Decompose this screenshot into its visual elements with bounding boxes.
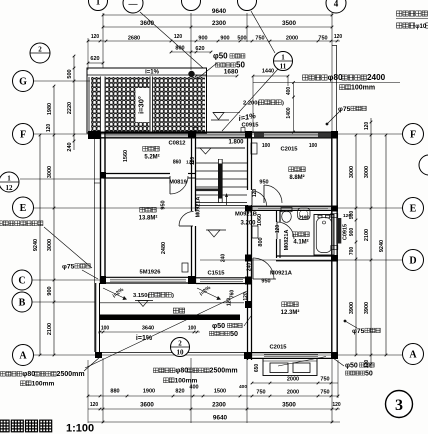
svg-text:φ80: φ80 — [175, 368, 188, 375]
column blob C-2 — [188, 276, 196, 284]
svg-text:i=1%: i=1% — [136, 335, 153, 342]
svg-text:C0915: C0915 — [241, 123, 259, 129]
svg-text:φ80: φ80 — [328, 73, 343, 82]
balcony ac unit 2 — [293, 363, 310, 373]
column blob F-4 — [331, 131, 338, 139]
svg-text:400: 400 — [286, 87, 292, 96]
axis line 4 vertical — [331, 12, 333, 133]
svg-text:1500: 1500 — [214, 389, 226, 395]
svg-text:750: 750 — [320, 390, 329, 396]
wall E right part — [252, 205, 331, 207]
svg-text:120: 120 — [332, 402, 341, 408]
axis bubble E right — [403, 198, 424, 219]
axis bubble E left — [13, 197, 34, 218]
svg-text:): ) — [282, 101, 284, 107]
shaft room8.8 — [251, 143, 257, 154]
svg-text:M0921A: M0921A — [270, 271, 293, 277]
svg-text:2: 2 — [38, 46, 42, 54]
note ac top right — [303, 75, 308, 80]
svg-text:φ80: φ80 — [22, 371, 35, 378]
svg-text:120: 120 — [46, 124, 52, 133]
terrace label — [173, 308, 178, 313]
bottom dim row 9640 — [88, 421, 340, 423]
svg-text:C0812: C0812 — [168, 141, 185, 147]
top dim row 9640 — [103, 14, 332, 16]
svg-text:φ75: φ75 — [62, 264, 75, 271]
svg-text:13.8M²: 13.8M² — [139, 215, 158, 222]
axis line B — [32, 301, 95, 303]
column blob storage-left — [100, 172, 106, 179]
svg-text:12.3M²: 12.3M² — [281, 309, 300, 316]
dim 1680 — [196, 75, 237, 77]
svg-text:1.800: 1.800 — [228, 140, 244, 146]
svg-text:B: B — [19, 298, 26, 309]
svg-text:2100: 2100 — [47, 323, 53, 335]
wall F solid seg1 — [254, 133, 264, 138]
svg-text:8.8M²: 8.8M² — [289, 174, 304, 181]
svg-text:400: 400 — [189, 385, 198, 391]
column blob E-4 — [331, 206, 338, 212]
svg-text:C: C — [18, 276, 25, 287]
svg-text:5.2M²: 5.2M² — [144, 154, 159, 161]
column blob D-4 — [331, 255, 338, 262]
svg-text:3000: 3000 — [47, 166, 53, 178]
svg-text:120: 120 — [364, 122, 370, 131]
stair landing line — [196, 147, 245, 149]
axis line C — [32, 279, 100, 281]
note wall detail left — [0, 221, 2, 226]
axis bubble F left — [13, 124, 34, 145]
svg-text:100: 100 — [309, 143, 318, 149]
terrace eave edge at A — [95, 352, 250, 354]
door M0821A bath — [276, 222, 278, 239]
window sill mark C0915 right — [241, 128, 245, 133]
axis line 2 vertical — [190, 13, 192, 70]
svg-text:9640: 9640 — [213, 415, 228, 422]
svg-text:1: 1 — [7, 175, 11, 183]
svg-text:2220: 2220 — [67, 102, 73, 114]
svg-text:240: 240 — [67, 142, 73, 151]
svg-text:10: 10 — [176, 348, 184, 356]
stair bottom edge — [196, 205, 247, 207]
column blob F-1 — [88, 131, 100, 139]
axis bubble B left — [12, 292, 32, 312]
svg-text:1900: 1900 — [143, 389, 155, 395]
svg-text:900: 900 — [349, 228, 355, 237]
stair treads — [196, 162, 247, 164]
axis bubble 2 top — [182, 0, 201, 11]
axis line F — [34, 133, 402, 135]
axis line 1 vertical — [102, 13, 104, 68]
ext line 1440 — [252, 76, 254, 132]
svg-text:500: 500 — [237, 36, 246, 42]
svg-text:50: 50 — [230, 329, 238, 338]
svg-text:2000: 2000 — [286, 36, 298, 42]
svg-text:120: 120 — [174, 34, 183, 40]
svg-text:F: F — [410, 130, 416, 141]
svg-text:—: — — [128, 0, 139, 8]
svg-text:φ50: φ50 — [345, 363, 358, 370]
svg-text:2680: 2680 — [128, 36, 140, 42]
svg-text:880: 880 — [110, 389, 119, 395]
door bedroom 12.3 — [252, 258, 254, 279]
top dim row small — [88, 40, 340, 42]
svg-text:φ10: φ10 — [415, 24, 427, 30]
label bathroom — [293, 232, 298, 237]
bottom dim row 3600/2300/3500 — [88, 408, 340, 410]
terrace level 3.150 — [135, 300, 153, 302]
window C2015F glazing — [264, 133, 318, 135]
column blob F-2 — [188, 131, 196, 139]
column blob A-4 — [331, 352, 338, 359]
window C0915F glazing — [196, 133, 245, 135]
column blob D-3 — [245, 255, 252, 262]
svg-text:100mm: 100mm — [351, 85, 375, 92]
svg-text:E: E — [20, 203, 27, 214]
svg-text:F: F — [20, 130, 26, 141]
svg-text:φ75: φ75 — [338, 106, 351, 113]
stair stringer — [218, 159, 223, 203]
axis line 3 vertical — [246, 13, 248, 42]
ledge slope arrow right — [197, 288, 220, 299]
ledge edge line — [100, 302, 244, 304]
svg-text:100: 100 — [262, 143, 271, 149]
svg-text:120: 120 — [275, 225, 281, 234]
svg-text:D: D — [409, 256, 416, 267]
svg-text:M0921B: M0921B — [235, 212, 257, 218]
sink — [298, 208, 311, 220]
detail circle 2/10 — [171, 338, 190, 357]
svg-text:900: 900 — [198, 36, 207, 42]
label master bedroom — [140, 207, 145, 212]
svg-text:3000: 3000 — [47, 239, 53, 251]
svg-text:3900: 3900 — [364, 302, 370, 314]
leader circle2 to roof — [140, 12, 203, 68]
svg-text:1060: 1060 — [257, 214, 263, 226]
label bedroom 12.3 — [282, 302, 287, 307]
wall axis1 left — [100, 133, 102, 283]
axis line A — [34, 354, 402, 356]
svg-text:100: 100 — [188, 326, 197, 332]
top dim row 3600/2300/3500 — [103, 26, 332, 28]
leader circle3 to detail — [251, 11, 275, 53]
svg-text:3600: 3600 — [140, 402, 154, 409]
svg-text:A: A — [19, 351, 27, 362]
bottom ext line left — [87, 360, 89, 423]
svg-text:1: 1 — [96, 0, 101, 6]
svg-text:E: E — [410, 204, 417, 215]
svg-text:C0915: C0915 — [343, 224, 349, 240]
wall A right part — [250, 352, 338, 354]
roof eave band line — [87, 74, 207, 76]
svg-text:100: 100 — [101, 326, 110, 332]
level 2.200 — [211, 119, 229, 121]
svg-text:2.200(: 2.200( — [243, 101, 260, 107]
svg-text:3900: 3900 — [349, 302, 355, 314]
svg-text:1680: 1680 — [224, 69, 239, 76]
wall F top line — [88, 131, 338, 133]
svg-text:1980: 1980 — [47, 103, 53, 115]
roof left edge — [88, 77, 90, 132]
left dim col inner 500/2220/240 — [73, 56, 75, 150]
svg-text:φ75: φ75 — [352, 328, 365, 335]
svg-text:120: 120 — [243, 292, 249, 301]
terrace dim 3640 — [98, 331, 200, 333]
svg-text:2300: 2300 — [212, 20, 227, 27]
wall F bottom line — [88, 137, 338, 139]
wall bath left — [276, 210, 278, 222]
bathtub — [318, 215, 322, 218]
svg-text:i=30°: i=30° — [137, 96, 146, 114]
title — [0, 420, 9, 432]
svg-text:500: 500 — [67, 69, 73, 78]
svg-text:11: 11 — [280, 62, 287, 70]
svg-text:5M1926: 5M1926 — [140, 270, 162, 276]
svg-text:120: 120 — [343, 213, 351, 219]
window sill mark C0915 left — [194, 128, 198, 133]
column blob F-3 — [245, 131, 252, 139]
svg-text:800: 800 — [258, 237, 264, 246]
axis bubble extra top — [123, 0, 143, 13]
toilet — [281, 208, 292, 212]
svg-text:3: 3 — [395, 397, 403, 414]
terrace parapet band — [100, 315, 240, 321]
door M0819 — [169, 176, 171, 194]
ledge slope arrow left — [103, 288, 126, 299]
bottom dim row small — [88, 395, 338, 397]
roof border — [87, 68, 207, 133]
svg-text:3.150(: 3.150( — [133, 293, 150, 299]
left dim col mid 1980/3000/3000/900/2100 — [53, 86, 55, 355]
svg-text:1: 1 — [281, 54, 285, 62]
svg-text:240: 240 — [221, 254, 227, 263]
axis bubble C left — [12, 270, 32, 290]
column blob E-3 — [245, 206, 252, 212]
column blob stair-right mid — [246, 206, 253, 212]
svg-text:9240: 9240 — [379, 240, 385, 252]
svg-text:760: 760 — [230, 290, 236, 299]
svg-text:G: G — [19, 77, 27, 88]
column blob C-1 — [100, 276, 106, 284]
svg-text:950: 950 — [261, 279, 270, 285]
svg-text:120: 120 — [91, 34, 100, 40]
svg-text:i=1%: i=1% — [145, 70, 160, 76]
svg-text:100mm: 100mm — [32, 381, 55, 388]
axis line E — [34, 207, 402, 209]
svg-text:400: 400 — [239, 384, 247, 390]
axis bubble 4 top — [326, 0, 346, 13]
svg-text:750: 750 — [256, 390, 265, 396]
svg-text:650: 650 — [254, 364, 260, 373]
column blob C-3 — [245, 277, 252, 285]
svg-text:9240: 9240 — [33, 239, 39, 251]
top sub dim 800/620 — [171, 51, 211, 53]
axis bubble 3 top — [238, 0, 257, 11]
eave outline left — [93, 139, 95, 352]
svg-text:3640: 3640 — [142, 326, 154, 332]
roof gap axis1 — [100, 77, 106, 133]
left dim col outer 9240 — [39, 135, 41, 355]
svg-text:750: 750 — [318, 36, 327, 42]
svg-text:1560: 1560 — [123, 150, 129, 162]
parapet above F right — [336, 45, 338, 132]
svg-text:620: 620 — [195, 46, 204, 52]
svg-text:C2015: C2015 — [269, 345, 287, 351]
wall stair left — [191, 133, 193, 211]
axis bubble 2 left — [30, 43, 50, 63]
svg-text:3.200: 3.200 — [240, 221, 256, 227]
svg-text:2300: 2300 — [212, 402, 226, 409]
svg-text:3600: 3600 — [140, 20, 155, 27]
svg-text:900: 900 — [220, 36, 229, 42]
svg-text:750: 750 — [255, 36, 264, 42]
axis bubble A left — [13, 345, 34, 366]
wall bedroom right lower — [191, 226, 193, 283]
axis line 1/12 — [20, 178, 100, 180]
wall C left (5M1926 band) — [106, 276, 188, 278]
svg-text:3500: 3500 — [282, 20, 297, 27]
leader drain top — [197, 63, 217, 79]
svg-text:50: 50 — [236, 61, 245, 70]
window C0915 vertical dark block — [336, 218, 341, 244]
dim 1440 — [253, 75, 288, 77]
axis line D — [200, 259, 402, 261]
svg-text:120: 120 — [190, 157, 196, 166]
wall right axis4 — [331, 133, 333, 358]
axis bubble A right — [403, 344, 424, 365]
svg-text:): ) — [172, 293, 174, 299]
svg-text:3500: 3500 — [282, 402, 296, 409]
svg-text:2000: 2000 — [287, 377, 299, 383]
shaft corridor — [252, 226, 258, 238]
wall C right (C1515 band) — [196, 277, 247, 279]
axis bubble partial right — [419, 155, 428, 175]
svg-text:1440: 1440 — [262, 69, 274, 75]
terrace diagonal leader — [85, 291, 247, 368]
svg-text:M0921A: M0921A — [196, 197, 202, 218]
roof gap mid — [149, 77, 153, 133]
bottom dim row balcony 2000/750 — [252, 382, 338, 384]
svg-text:950: 950 — [161, 200, 167, 209]
column blob B-3 — [245, 301, 252, 308]
wall F solid seg2 — [318, 133, 331, 138]
svg-text:1400: 1400 — [286, 107, 292, 118]
svg-text:3000: 3000 — [349, 166, 355, 178]
right dim col inner — [355, 135, 357, 355]
stair thick tread — [196, 189, 218, 192]
svg-text:4: 4 — [334, 0, 339, 8]
svg-text:2: 2 — [178, 340, 182, 348]
axis bubble F right — [403, 124, 424, 145]
svg-text:120: 120 — [252, 189, 258, 198]
svg-text:750: 750 — [320, 377, 329, 383]
stair up arrow — [226, 194, 228, 205]
door bedroom 8.8 — [263, 185, 265, 203]
axis bubble 1/12 left — [0, 172, 19, 192]
wall storage bottom — [103, 173, 170, 175]
dim 400/1400 vertical — [293, 83, 295, 133]
balcony outline — [263, 359, 317, 376]
svg-text:1:100: 1:100 — [66, 423, 94, 434]
note ac left — [0, 372, 5, 377]
detail circle 1/11 — [274, 52, 293, 71]
svg-text:2000: 2000 — [287, 390, 299, 396]
svg-text:2480: 2480 — [161, 242, 167, 254]
wall corridor left — [247, 205, 249, 360]
svg-text:120: 120 — [90, 402, 99, 408]
axis bubble D right — [403, 250, 424, 271]
svg-text:9640: 9640 — [212, 8, 227, 15]
axis bubble G — [13, 71, 34, 92]
svg-text:860: 860 — [173, 160, 182, 166]
svg-text:2100: 2100 — [364, 229, 370, 241]
svg-text:100mm: 100mm — [175, 378, 198, 385]
shaft bedroom — [182, 263, 188, 272]
terrace axis dot — [99, 353, 101, 358]
svg-text:C1515: C1515 — [207, 271, 225, 277]
leader detail to C0915 — [222, 69, 278, 131]
svg-text:2400: 2400 — [367, 73, 386, 82]
svg-text:50: 50 — [365, 371, 373, 378]
right dim col mid — [370, 118, 372, 368]
wall stair right upper — [247, 133, 249, 190]
door M0921B hall — [251, 191, 253, 205]
note top right margin — [397, 11, 402, 16]
ac leader line top — [253, 82, 400, 84]
roof corner dot — [188, 71, 194, 77]
roof i=30 label box — [136, 88, 150, 122]
svg-text:φ50: φ50 — [212, 321, 225, 330]
axis line G — [34, 80, 90, 82]
wall D — [246, 255, 252, 257]
svg-text:900: 900 — [47, 286, 53, 295]
roof tile hatch — [91, 77, 205, 133]
svg-text:3000: 3000 — [364, 166, 370, 178]
label storage — [143, 146, 148, 151]
svg-text:φ50: φ50 — [213, 52, 228, 61]
svg-text:C2015: C2015 — [280, 147, 298, 153]
axis bubble 1 top — [89, 0, 108, 11]
svg-text:4.1M²: 4.1M² — [293, 239, 308, 246]
label bedroom 8.8 — [289, 167, 294, 172]
stair level mark 1.800 — [198, 147, 245, 149]
svg-text:120: 120 — [227, 298, 233, 307]
note ac mid — [153, 368, 158, 373]
balcony ac unit 1 — [270, 363, 288, 373]
eave dim 620 left — [88, 62, 103, 64]
parapet terrace west — [95, 283, 97, 353]
svg-text:820: 820 — [175, 389, 184, 395]
svg-text:2500mm: 2500mm — [210, 368, 238, 375]
svg-text:700: 700 — [349, 247, 355, 256]
svg-text:620: 620 — [90, 56, 99, 62]
door M0921A bedroom — [179, 225, 193, 227]
lobby level 3.200 — [206, 229, 226, 231]
svg-text:M0819: M0819 — [169, 180, 188, 186]
window C2015A glazing — [264, 353, 318, 355]
sheet number circle 3 — [386, 391, 413, 418]
svg-text:A: A — [409, 350, 417, 361]
svg-text:2190: 2190 — [298, 216, 309, 222]
window C0812 glazing — [106, 133, 188, 135]
column blob A-3 — [244, 352, 252, 359]
svg-text:2500mm: 2500mm — [57, 371, 85, 378]
right dim col outer 9240 — [385, 135, 387, 355]
svg-text:240: 240 — [247, 263, 253, 272]
bottom ext line right — [337, 360, 339, 398]
svg-text:120: 120 — [334, 34, 343, 40]
svg-text:950: 950 — [259, 180, 268, 186]
